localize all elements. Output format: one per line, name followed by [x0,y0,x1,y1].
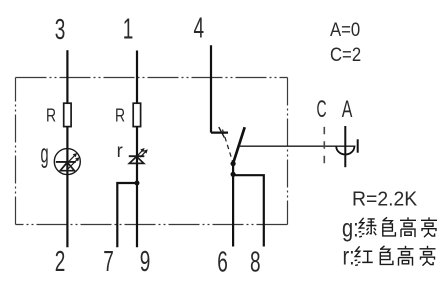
label A=0 [330,19,360,40]
wire resistor to LED r [136,127,138,164]
dash-dot enclosure box [16,78,288,225]
svg-text:4: 4 [194,13,205,45]
LED g circle [54,149,80,175]
connector A socket pin line [344,126,346,167]
char 色 (line2) [380,246,393,265]
svg-text:2: 2 [55,246,66,278]
pin 3 label [55,14,66,46]
svg-text:R: R [46,106,56,126]
wire pivot to pin8 branch [233,175,264,246]
wire LED g to pin2 [66,174,68,247]
svg-text:g: g [41,140,49,168]
char 亮 (line1) [421,217,437,237]
switch contact slash [219,127,225,138]
pin 2 label [55,246,66,278]
svg-text:C: C [317,96,327,123]
svg-text:3: 3 [55,14,66,46]
label C=2 [330,44,361,65]
label g: green text [342,214,359,242]
label r [117,141,123,163]
label C [317,96,327,123]
wire pin3 top [66,50,68,103]
svg-text:r: r [117,141,123,163]
pin 1 label [123,14,134,46]
LED g diode [56,162,76,171]
label r: red text [343,242,355,270]
switch blade [233,127,245,163]
pin 4 label [194,13,205,45]
resistor R (left) [64,103,71,126]
svg-text:7: 7 [103,246,114,278]
pin 9 label [140,246,151,278]
svg-text:8: 8 [250,247,261,279]
resistor R (right) [133,103,140,126]
label R left [46,106,56,126]
LED r emission arrows [138,148,148,157]
svg-text:r:: r: [343,242,355,270]
label A [342,96,353,123]
label g [41,140,49,168]
char 高 (line1) [400,217,416,237]
junction dot node [135,181,140,186]
pin 8 label [250,247,261,279]
svg-text:R: R [115,106,125,126]
wire between pivot dots down to pin6 [232,164,234,247]
node C dashed line [323,127,325,165]
wire resistor to LED g [66,127,68,175]
switch pivot dot 1 [231,161,236,166]
svg-text:C=2: C=2 [330,44,361,65]
LED g emission arrows [63,153,80,170]
switch pivot dot 2 [231,172,236,177]
connector A socket arc [336,146,354,154]
svg-text:A: A [342,96,353,123]
svg-text:9: 9 [140,246,151,278]
label R right [115,106,125,126]
svg-text:R=2.2K: R=2.2K [352,188,417,210]
char 绿 [359,218,377,237]
label R=2.2K [352,188,417,210]
wire pin4 top [210,45,212,132]
switch linkage dashed [223,130,233,162]
wire LED r down through junction to pin9 [136,163,138,247]
svg-text:6: 6 [217,247,228,279]
char 红 [355,246,373,265]
char 亮 (line2) [420,246,436,266]
pin 6 label [217,247,228,279]
LED r diode [129,156,145,163]
switch fixed contact foot [211,132,228,134]
char 色 (line1) [383,217,396,236]
svg-text:g:: g: [342,214,359,242]
wire pin1 top [136,51,138,104]
svg-text:1: 1 [123,14,134,46]
connector A plug tick [357,139,359,152]
wire switch to connector [239,145,356,147]
pin 7 label [103,246,114,278]
char 高 (line2) [398,246,414,266]
svg-text:A=0: A=0 [330,19,360,40]
wire junction to pin7 branch [117,183,137,247]
